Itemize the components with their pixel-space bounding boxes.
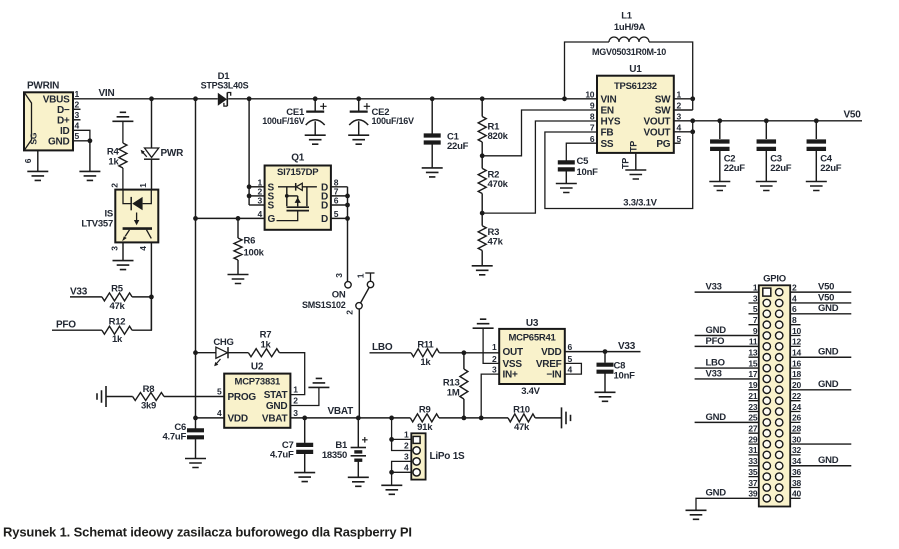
opto pin 1 rotated number (138, 183, 148, 188)
wire SS to C5 (566, 143, 597, 160)
svg-text:4: 4 (792, 293, 797, 303)
switch pin 1 rotated number (356, 273, 366, 278)
pin 6 wire of PWRIN (37, 150, 39, 171)
pin number 3 U2 (293, 408, 298, 418)
ground at LiPo (381, 485, 402, 494)
svg-text:VBAT: VBAT (262, 414, 288, 425)
capacitor CE1 100uF/16V (306, 112, 325, 136)
svg-text:1k: 1k (112, 334, 123, 345)
wire PG stub (674, 142, 681, 144)
svg-text:820k: 820k (488, 131, 509, 142)
wire Q1 D stub (331, 217, 348, 219)
svg-text:D: D (321, 201, 328, 212)
junction SW pin1 (690, 96, 695, 101)
wire SW pin2 stub (674, 109, 693, 111)
pin name SW U1 (655, 94, 671, 105)
label B1 (335, 440, 348, 451)
label R5 (111, 283, 124, 294)
resistor R10 47k (508, 414, 535, 422)
transistor Q1 body (265, 166, 331, 230)
wire VBAT to B1 (357, 418, 359, 448)
svg-text:VBAT: VBAT (328, 406, 354, 417)
ground at R6 (228, 275, 249, 284)
svg-text:VDD: VDD (541, 347, 561, 358)
junction VIN/Q1-gate-branch (193, 96, 198, 101)
pin name IN+ U3 (503, 370, 519, 381)
plus sign CE2 (364, 103, 370, 109)
wire GPIO pin39 GND (696, 498, 759, 510)
label CE1 (286, 107, 305, 118)
net label LBO pin15 (706, 357, 725, 368)
svg-text:29: 29 (748, 434, 757, 444)
ground at TP (625, 170, 646, 179)
value 1M of R13 (447, 388, 460, 399)
wire SW pin1 stub (674, 98, 693, 100)
net label 3.3/3.1V (623, 198, 657, 209)
svg-text:3: 3 (110, 246, 120, 251)
svg-text:PWRIN: PWRIN (27, 81, 59, 92)
net label GND pin39 (706, 488, 727, 499)
pin number 8 U1 (590, 112, 595, 122)
pin name FB U1 (601, 128, 614, 139)
wire TP pin (635, 153, 637, 170)
svg-text:2: 2 (75, 100, 80, 110)
junction VIN/C1 (430, 96, 435, 101)
svg-text:U1: U1 (629, 64, 642, 75)
pin name VBUS of PWRIN (43, 94, 70, 105)
svg-text:PROG: PROG (228, 392, 257, 403)
charger U2 body (224, 374, 290, 428)
svg-text:40: 40 (792, 489, 801, 499)
ground at C2 (709, 182, 730, 191)
value 22uF of C3 (770, 163, 792, 174)
pin number 3 of PWRIN (75, 110, 80, 120)
pin number 1 U1 (677, 89, 682, 99)
wire C6 to ground (195, 439, 197, 458)
junction LiPo pin1 (389, 437, 394, 442)
label R10 (513, 405, 530, 416)
svg-text:GPIO: GPIO (763, 274, 786, 285)
svg-text:FB: FB (601, 128, 614, 139)
svg-text:OUT: OUT (503, 347, 524, 358)
svg-text:LiPo 1S: LiPo 1S (430, 451, 466, 462)
svg-text:GND: GND (48, 136, 70, 147)
ground at C8 (595, 392, 616, 401)
svg-text:10: 10 (585, 89, 594, 99)
junction VIN/R1 (480, 96, 485, 101)
svg-text:PFO: PFO (706, 336, 725, 347)
ground at C3 (756, 182, 777, 191)
svg-text:31: 31 (748, 445, 757, 455)
svg-text:4: 4 (75, 121, 80, 131)
pin number 34 GPIO (792, 456, 801, 466)
pin name HYS U1 (601, 117, 621, 128)
label CHG (213, 337, 233, 348)
svg-text:GND: GND (818, 303, 839, 314)
opto internal LED (123, 190, 151, 211)
junction R5/R12/opto (149, 295, 154, 300)
svg-text:D+: D+ (57, 115, 70, 126)
svg-text:SI7157DP: SI7157DP (277, 167, 319, 178)
wire R5 to junction (132, 296, 151, 298)
LiPo pin number 3 (404, 451, 409, 461)
power bar above R4 (112, 112, 133, 121)
svg-text:6: 6 (590, 134, 595, 144)
pin number 3 U3 (492, 365, 497, 375)
svg-text:MCP73831: MCP73831 (235, 376, 281, 387)
svg-text:8: 8 (590, 112, 595, 122)
value 1k of R11 (420, 357, 431, 368)
wire LBO to R11 (370, 352, 412, 354)
pin number 7 GPIO (753, 315, 758, 325)
wire VIN rail (73, 98, 218, 100)
optocoupler IS LTV357 body (115, 190, 158, 243)
resistor R9 91k (410, 414, 439, 422)
pin number 10 GPIO (792, 326, 801, 336)
svg-text:LTV357: LTV357 (81, 219, 113, 230)
wire Q1 drain tie (347, 187, 349, 282)
opto pin 4 rotated number (138, 246, 148, 251)
label CE2 (372, 107, 390, 118)
svg-text:3.4V: 3.4V (521, 386, 540, 397)
svg-text:7: 7 (753, 315, 758, 325)
wire opto pin3 to ground (122, 242, 124, 260)
resistor R12 1k (102, 326, 132, 334)
svg-text:2: 2 (110, 183, 120, 188)
svg-text:V33: V33 (706, 368, 722, 379)
ground right at R10 (562, 407, 571, 428)
junction VOUT pin3 (690, 118, 695, 123)
svg-text:33: 33 (748, 456, 757, 466)
svg-text:47k: 47k (514, 422, 530, 433)
svg-text:5: 5 (568, 354, 573, 364)
junction V50/C4 (814, 118, 819, 123)
svg-text:38: 38 (792, 478, 801, 488)
svg-text:D−: D− (57, 105, 70, 116)
pin number 13 GPIO (748, 348, 757, 358)
svg-text:SS: SS (601, 139, 614, 150)
wire R11 to U3 OUT (439, 352, 499, 354)
svg-text:20: 20 (792, 380, 801, 390)
svg-text:47k: 47k (109, 301, 125, 312)
ground at PWRIN pin5 (79, 171, 100, 180)
svg-text:3: 3 (404, 451, 409, 461)
opto pin 2 rotated number (110, 183, 120, 188)
svg-text:24: 24 (792, 402, 801, 412)
svg-text:TP: TP (621, 158, 631, 169)
resistor R13 1M (460, 353, 468, 418)
value 10nF of C5 (577, 167, 599, 178)
ground up at U3 VSS (473, 319, 494, 328)
wire to CHG diode (196, 352, 216, 354)
resistor R3 47k (478, 213, 486, 266)
svg-text:30: 30 (792, 434, 801, 444)
junction LiPo pin4 (389, 470, 394, 475)
wire LiPo pins 3-4 (392, 461, 412, 485)
pin number 9 U1 (590, 101, 595, 111)
wire V50 to C4 (815, 121, 817, 139)
pin name GND of PWRIN (48, 136, 70, 147)
pin number 38 GPIO (792, 478, 801, 488)
pin number 1 U2 (293, 385, 298, 395)
pin number 4 U3 (568, 365, 573, 375)
junction VIN/PWR-LED (149, 96, 154, 101)
pin number 3 GPIO (753, 293, 758, 303)
junction VIN/CE1 (313, 96, 318, 101)
value 18350 of B1 (322, 450, 347, 461)
pin number 19 GPIO (748, 380, 757, 390)
pin name D Q1 right (321, 182, 328, 193)
pin number 1 Q1 (258, 177, 263, 187)
pin name G Q1 left (268, 214, 276, 225)
label C1 (447, 132, 460, 143)
wire VIN rail after D1 (228, 98, 597, 100)
svg-text:2: 2 (345, 310, 355, 315)
svg-text:10nF: 10nF (577, 167, 599, 178)
svg-text:4.7uF: 4.7uF (270, 450, 294, 461)
svg-text:1uH/9A: 1uH/9A (614, 22, 646, 33)
resistor R1 820k (478, 99, 486, 156)
svg-text:HYS: HYS (601, 117, 621, 128)
capacitor C1 22uF (424, 136, 441, 143)
label R6 (244, 236, 256, 247)
svg-text:6: 6 (792, 304, 797, 314)
junction R2/R3/HYS (480, 211, 485, 216)
label D1 (218, 71, 231, 82)
svg-text:1: 1 (492, 342, 497, 352)
label U2 (251, 361, 264, 372)
net label VBAT (328, 406, 354, 417)
svg-text:ON: ON (332, 290, 346, 301)
label U3 (526, 318, 539, 329)
svg-text:GND: GND (706, 325, 727, 336)
svg-text:VDD: VDD (228, 414, 248, 425)
wire Q1 drain to switch (347, 280, 349, 282)
resistor R5 47k (102, 293, 132, 301)
svg-text:C5: C5 (577, 156, 590, 167)
svg-text:35: 35 (748, 467, 757, 477)
svg-text:IN+: IN+ (503, 370, 519, 381)
junction V50/C2 (717, 118, 722, 123)
wire ground to R8 (106, 396, 133, 398)
svg-text:5: 5 (217, 387, 222, 397)
wire C1 to ground (431, 144, 433, 168)
value SMS1S102 (302, 300, 346, 310)
junction VBAT/B1 (356, 416, 361, 421)
switch ON SMS1S102 (345, 273, 375, 309)
wire C2 to ground (719, 150, 721, 182)
svg-text:1: 1 (753, 282, 758, 292)
pin number 40 GPIO (792, 489, 801, 499)
svg-text:R6: R6 (244, 236, 256, 247)
pin name VOUT U1 (644, 128, 671, 139)
pin name PG U1 (656, 139, 670, 150)
value 22uF of C2 (724, 163, 746, 174)
svg-text:19: 19 (748, 380, 757, 390)
svg-text:U2: U2 (251, 361, 264, 372)
net label PFO (56, 320, 76, 331)
value LTV357 (81, 219, 113, 230)
rotated label SG inside PWRIN (29, 132, 39, 144)
svg-text:LBO: LBO (706, 357, 725, 368)
svg-text:4: 4 (217, 408, 222, 418)
ground at C5 (556, 184, 577, 193)
svg-text:4: 4 (258, 209, 263, 219)
capacitor C2 22uF (710, 142, 730, 149)
svg-text:3: 3 (492, 365, 497, 375)
pin number 7 Q1 (334, 187, 339, 197)
label C7 (282, 440, 294, 451)
switch pin 2 rotated number (345, 310, 355, 315)
wire Q1 gate stub (196, 217, 265, 219)
value TPS61232 (614, 81, 657, 92)
junction Q1 pin2 (247, 194, 252, 199)
pin name D Q1 right (321, 192, 328, 203)
wire VOUT pin4 stub (674, 131, 693, 133)
wire Q1 source tie (248, 99, 250, 205)
value STPS3L40S (201, 81, 249, 91)
svg-text:MGV05031R0M-10: MGV05031R0M-10 (592, 47, 666, 57)
svg-text:1: 1 (75, 89, 80, 99)
svg-text:SMS1S102: SMS1S102 (302, 300, 346, 310)
svg-text:9: 9 (753, 326, 758, 336)
svg-text:1k: 1k (108, 157, 119, 168)
wire R10 to ground (535, 417, 561, 419)
svg-text:6: 6 (334, 196, 339, 206)
junction VIN/CE2 (356, 96, 361, 101)
LiPo pad 1 square (413, 436, 420, 443)
pin name D Q1 right (321, 214, 328, 225)
label R8 (143, 384, 155, 395)
capacitor C5 10nF (558, 162, 575, 169)
net label GND pin9 (706, 325, 727, 336)
value MGV05031R0M-10 (592, 47, 666, 57)
junction Q1 pin6 (345, 203, 350, 208)
svg-text:2: 2 (404, 441, 409, 451)
wire CHG to R7 (228, 352, 248, 354)
pin name OUT U3 (503, 347, 524, 358)
resistor R8 3k9 (133, 393, 164, 401)
caption Rysunek 1 (3, 525, 412, 540)
ground at C4 (806, 182, 827, 191)
wire VIN branch down (195, 99, 197, 429)
comparator U3 body (499, 329, 565, 384)
svg-text:3: 3 (334, 273, 344, 278)
label Q1 (291, 153, 305, 164)
wire VDD to V33 (565, 351, 641, 353)
wire GPIO pin15 LBO (695, 367, 759, 369)
svg-text:12: 12 (792, 337, 801, 347)
svg-text:1: 1 (138, 183, 148, 188)
LiPo pin number 4 (404, 462, 409, 472)
label GPIO (763, 274, 786, 285)
pin number 16 GPIO (792, 358, 801, 368)
svg-text:V50: V50 (818, 292, 834, 303)
capacitor C3 22uF (757, 142, 777, 149)
svg-text:R8: R8 (143, 384, 155, 395)
svg-text:5: 5 (753, 304, 758, 314)
ground at GPIO pin39 (686, 510, 707, 519)
rotated TP label outside (621, 158, 631, 169)
pin 6 rotated number (23, 158, 33, 163)
junction CHG branch (193, 350, 198, 355)
label C2 (724, 154, 736, 165)
plus sign CE1 (320, 103, 326, 109)
inductor L1 1uH/9A (609, 37, 693, 110)
pin number 12 GPIO (792, 337, 801, 347)
label R7 (260, 330, 272, 341)
svg-text:D: D (321, 214, 328, 225)
junction Q1 pin5 (345, 216, 350, 221)
pin name D+ of PWRIN (57, 115, 70, 126)
junction VBAT/IN+ (479, 416, 484, 421)
Q1 internal MOSFET (277, 183, 317, 221)
svg-text:S: S (268, 201, 275, 212)
svg-text:3.3/3.1V: 3.3/3.1V (623, 198, 657, 209)
pin number 37 GPIO (748, 478, 757, 488)
wire V33 to C8 (604, 352, 606, 363)
pin number 4 Q1 (258, 209, 263, 219)
pin number 1 of PWRIN (75, 89, 80, 99)
wire FB to VOUT loop (545, 121, 693, 209)
capacitor C4 22uF (807, 142, 827, 149)
value 1k of R7 (260, 339, 271, 350)
wire V50 to C2 (719, 121, 721, 139)
wire GPIO pin14 GND (790, 356, 851, 358)
svg-text:SW: SW (655, 106, 671, 117)
value 1k of R4 (108, 157, 119, 168)
wire switch to VBAT (358, 309, 360, 418)
svg-text:R11: R11 (417, 339, 434, 350)
pin number 17 GPIO (748, 369, 757, 379)
resistor R4 1k (119, 121, 127, 189)
label C8 (614, 361, 626, 372)
net label V50 pin4 (818, 292, 834, 303)
pin name SS U1 (601, 139, 614, 150)
svg-text:14: 14 (792, 348, 801, 358)
junction VBAT/R13 (462, 416, 467, 421)
wire GPIO pin17 V33 (695, 378, 759, 380)
label R2 (488, 169, 500, 180)
svg-text:R5: R5 (111, 283, 124, 294)
plus sign B1 (362, 437, 368, 443)
junction VBAT/C7 (302, 416, 307, 421)
ground at R3 (472, 266, 493, 275)
svg-text:3: 3 (753, 293, 758, 303)
pin name S Q1 left (268, 201, 275, 212)
svg-text:1k: 1k (260, 339, 271, 350)
svg-text:2: 2 (792, 282, 797, 292)
net label LBO (372, 342, 393, 353)
svg-text:CHG: CHG (213, 337, 233, 348)
LiPo pad 4 circle (413, 469, 420, 476)
svg-text:3: 3 (258, 196, 263, 206)
svg-text:3: 3 (75, 110, 80, 120)
pin number 1 U3 (492, 342, 497, 352)
junction VBAT/LiPo (389, 416, 394, 421)
svg-text:TP: TP (629, 141, 639, 152)
wire Q1 S stub (249, 204, 265, 206)
wire VOUT pin3 stub (674, 120, 693, 122)
svg-text:L1: L1 (621, 10, 633, 21)
svg-text:1k: 1k (420, 357, 431, 368)
svg-text:91k: 91k (417, 422, 433, 433)
GPIO short stubs (749, 303, 801, 498)
svg-text:1: 1 (677, 89, 682, 99)
pin number 6 U1 (590, 134, 595, 144)
wire GPIO pin25 GND (695, 421, 759, 423)
svg-text:4: 4 (404, 462, 409, 472)
